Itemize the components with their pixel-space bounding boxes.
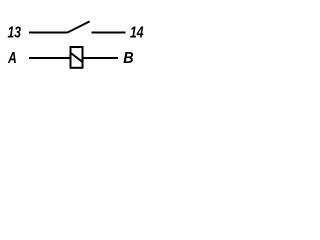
svg-text:A: A [7,49,17,67]
svg-text:13: 13 [8,24,22,42]
svg-text:B: B [123,49,133,67]
svg-text:14: 14 [130,24,144,42]
